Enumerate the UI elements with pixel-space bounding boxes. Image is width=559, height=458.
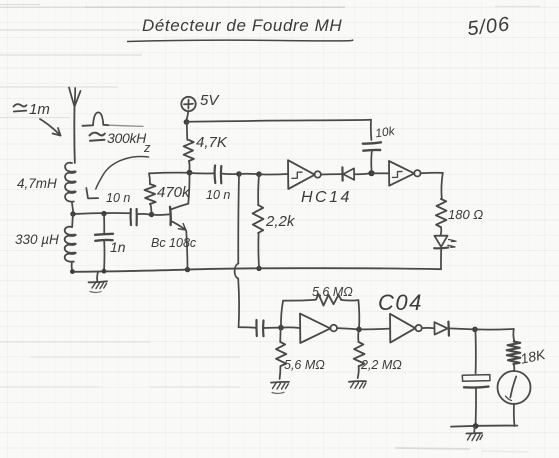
svg-text:1m: 1m: [29, 101, 50, 118]
svg-text:10 n: 10 n: [206, 188, 230, 202]
svg-text:5,6 MΩ: 5,6 MΩ: [312, 285, 353, 299]
svg-text:Détecteur de Foudre MH: Détecteur de Foudre MH: [142, 16, 342, 35]
svg-text:300kH: 300kH: [107, 130, 147, 146]
svg-text:5,6 MΩ: 5,6 MΩ: [284, 358, 325, 372]
svg-text:Bc 108c: Bc 108c: [151, 236, 197, 250]
svg-text:z: z: [143, 140, 151, 155]
svg-text:HC14: HC14: [301, 189, 352, 206]
svg-text:4,7K: 4,7K: [196, 134, 228, 151]
svg-text:2,2k: 2,2k: [265, 213, 296, 230]
svg-text:2,2 MΩ: 2,2 MΩ: [360, 358, 402, 372]
svg-text:470k: 470k: [157, 184, 191, 201]
svg-text:330 µH: 330 µH: [15, 232, 59, 247]
svg-text:10k: 10k: [374, 124, 396, 141]
svg-text:4,7mH: 4,7mH: [17, 176, 57, 191]
svg-text:180 Ω: 180 Ω: [448, 207, 483, 222]
svg-text:C04: C04: [378, 290, 423, 315]
svg-text:10 n: 10 n: [106, 191, 130, 205]
svg-text:5V: 5V: [200, 92, 220, 109]
svg-text:1n: 1n: [110, 239, 126, 255]
